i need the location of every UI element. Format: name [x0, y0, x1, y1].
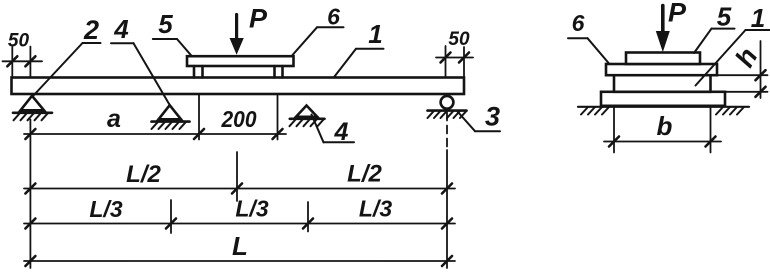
leader label 2: [83, 42, 101, 44]
svg-text:h: h: [729, 43, 763, 72]
roller support 3 (right): [441, 96, 454, 109]
distribution plate 6 (side view): [187, 56, 294, 66]
dimension b: dimension line: [604, 141, 721, 143]
plate 5 (section): [626, 53, 700, 65]
extension line left support (long vertical): [29, 120, 31, 269]
svg-text:P: P: [249, 4, 268, 34]
extension line L/3 left: [170, 200, 172, 233]
leader label 1 (section): [746, 29, 770, 31]
dimension 50 right: extension lines: [445, 46, 447, 77]
svg-text:50: 50: [8, 31, 30, 52]
spare support 4 (middle-left triangle): [159, 105, 182, 119]
svg-text:6: 6: [572, 10, 585, 36]
leader label 6 (section): [568, 37, 588, 39]
extension line load point right: [277, 94, 279, 140]
svg-text:L/3: L/3: [359, 196, 392, 222]
plate 6 (section): [606, 64, 717, 75]
svg-text:200: 200: [221, 106, 257, 132]
svg-text:2: 2: [83, 15, 99, 45]
force P arrow (section): [661, 6, 665, 34]
leader label 4 lower: [324, 141, 355, 143]
dimension h: extension lines: [710, 74, 768, 76]
pin support 2 (left, triangle): [21, 96, 45, 111]
leader label 6: [317, 26, 344, 28]
svg-text:b: b: [657, 111, 673, 141]
dimension row L: [24, 260, 455, 262]
svg-text:a: a: [107, 105, 121, 133]
svg-text:4: 4: [113, 14, 129, 44]
dimension row a / 200: [24, 133, 286, 135]
dimension row L/2: [24, 188, 455, 190]
svg-text:L/3: L/3: [235, 196, 268, 222]
svg-text:L/2: L/2: [347, 161, 382, 188]
svg-text:4: 4: [334, 118, 349, 146]
leader label 5: [153, 38, 177, 40]
ground (section): [578, 106, 749, 108]
svg-text:5: 5: [158, 9, 173, 39]
dimension 50 left: extension lines: [11, 47, 13, 77]
dimension 50 right: dimension line: [436, 57, 473, 59]
extension line centre: [236, 152, 238, 201]
leader label 4: [111, 42, 134, 44]
svg-text:50: 50: [448, 29, 470, 50]
dimension h: dimension line: [760, 41, 762, 98]
spare support 4 (middle-right triangle): [296, 106, 317, 117]
dimension b: extension lines: [613, 107, 615, 153]
dimension row L/3: [24, 223, 455, 225]
extension line L/3 right: [307, 202, 309, 232]
extension line load point left: [198, 94, 200, 140]
leader label 1: [356, 48, 384, 50]
svg-text:1: 1: [751, 3, 765, 33]
dimension 50 left: dimension line: [3, 60, 43, 62]
svg-text:L/3: L/3: [89, 196, 122, 222]
svg-text:6: 6: [327, 3, 340, 29]
load block right (element 5): [273, 66, 276, 78]
svg-text:1: 1: [368, 19, 382, 49]
svg-text:P: P: [668, 0, 687, 28]
extension line right support (long vertical): [446, 113, 448, 151]
svg-text:L: L: [232, 231, 248, 261]
load block left (element 5): [193, 66, 196, 78]
force P arrow (side view): [235, 15, 238, 41]
bottom support plate (section): [601, 92, 725, 106]
leader label 5 (section): [712, 28, 735, 30]
leader label 3: [475, 130, 500, 132]
svg-text:L/2: L/2: [126, 161, 161, 188]
beam 1 (section): [614, 75, 711, 92]
beam 1 (side view): [12, 78, 465, 95]
svg-text:3: 3: [485, 102, 500, 132]
svg-text:5: 5: [717, 2, 732, 32]
